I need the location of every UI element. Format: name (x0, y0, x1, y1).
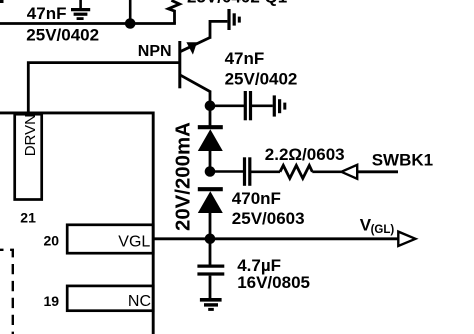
wire: D1 to node (209, 151, 212, 172)
svg-text:25V/0402 Q1: 25V/0402 Q1 (187, 0, 287, 7)
node: collector / charge-pump node (205, 101, 216, 112)
ground G2 (rotated, at emitter) (229, 9, 239, 30)
svg-text:25V/0603: 25V/0603 (232, 209, 305, 228)
wire: C4 to ground (209, 276, 212, 298)
wire: collector down to node (209, 91, 212, 106)
pin box VGL (67, 225, 153, 253)
diode D2 (198, 187, 223, 191)
dashed box (cut off, bottom-left) (0, 250, 13, 334)
wire: D2 to VGL rail (209, 213, 212, 239)
node: between diodes (205, 166, 216, 177)
ground G4 (below C4) (200, 300, 222, 310)
svg-text:20V/200mA: 20V/200mA (173, 122, 195, 231)
wire: SWBK1 lead (357, 170, 398, 173)
node: top rail junction (125, 18, 136, 29)
svg-text:16V/0805: 16V/0805 (237, 273, 310, 292)
svg-text:470nF: 470nF (232, 189, 281, 208)
transistor Q1 lower (collector) diagonal (180, 75, 211, 92)
svg-text:25V/0402: 25V/0402 (225, 70, 298, 89)
wire: emitter up (210, 21, 227, 38)
clipped text fragment at top edge (187, 0, 287, 7)
svg-text:47nF: 47nF (225, 49, 265, 68)
svg-text:2.2Ω/0603: 2.2Ω/0603 (265, 145, 345, 164)
svg-text:NPN: NPN (138, 43, 172, 60)
svg-text:19: 19 (44, 293, 60, 309)
svg-text:21: 21 (20, 209, 36, 225)
wire: node to 47nF flying cap (210, 105, 244, 108)
svg-text:(GL): (GL) (371, 224, 395, 236)
svg-text:DRVN: DRVN (22, 114, 39, 156)
resistor (cut off at top edge) (168, 0, 179, 23)
pin box NC (67, 286, 153, 311)
resistor R1 2.2ohm zigzag (280, 165, 312, 178)
svg-text:47nF: 47nF (27, 4, 67, 23)
capacitor C4 4.7uF plates (197, 264, 224, 267)
svg-text:VGL: VGL (118, 233, 150, 250)
corner text fragment top-left (0, 0, 4, 3)
wire: top rail horizontal (0, 22, 176, 25)
wire: base wire from IC pin DRVN (28, 63, 180, 113)
ground G1 (top, next to 47nF) (71, 0, 90, 19)
svg-text:20: 20 (44, 233, 60, 249)
wire: VGL node down to 4.7uF (209, 239, 212, 265)
transistor Q1 base bar (178, 41, 181, 88)
transistor Q1 upper (emitter) diagonal (180, 38, 210, 52)
wire: C3 to resistor (251, 171, 280, 174)
capacitor C3 470nF plates (243, 157, 246, 186)
wire: vertical stub from top edge to junction (129, 0, 132, 24)
node: VGL (205, 234, 216, 245)
wire: VGL rail (153, 237, 398, 240)
ground G3 (rotated, after C2) (274, 95, 285, 116)
diode D1 (198, 125, 223, 129)
svg-text:SWBK1: SWBK1 (372, 151, 433, 170)
IC body outline (top and right edges) (0, 113, 153, 334)
capacitor C2 47nF plates (244, 91, 247, 120)
signal arrow SWBK1 (open, pointing left) (341, 165, 357, 179)
wire: resistor to SWBK1 arrow (312, 171, 341, 174)
svg-text:25V/0402: 25V/0402 (26, 26, 99, 45)
wire: node to 470nF (210, 170, 243, 173)
signal arrow V(GL) (open, pointing right) (398, 232, 415, 246)
wire: cap to ground (252, 105, 273, 108)
transistor Q1 emitter arrow (186, 42, 197, 54)
svg-text:NC: NC (128, 293, 151, 310)
svg-text:4.7µF: 4.7µF (237, 256, 281, 275)
pin box DRVN (15, 114, 42, 199)
wire: node to diode D1 (209, 106, 212, 126)
